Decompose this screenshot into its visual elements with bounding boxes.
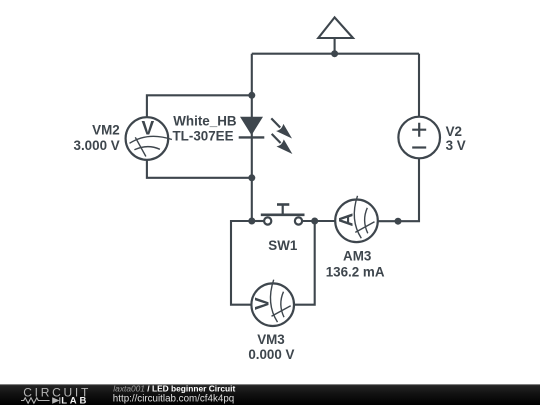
svg-text:3 V: 3 V <box>446 138 466 153</box>
svg-text:http://circuitlab.com/cf4k4pq: http://circuitlab.com/cf4k4pq <box>113 393 234 404</box>
svg-text:laxta001 / LED beginner Circui: laxta001 / LED beginner Circuit <box>113 384 235 394</box>
svg-text:V: V <box>253 297 274 310</box>
svg-text:V2: V2 <box>446 124 462 139</box>
svg-text:3.000 V: 3.000 V <box>74 138 120 153</box>
svg-text:A: A <box>336 213 357 227</box>
svg-text:136.2 mA: 136.2 mA <box>326 264 385 279</box>
svg-text:AM3: AM3 <box>343 249 371 264</box>
svg-text:V: V <box>142 118 155 139</box>
svg-text:VM3: VM3 <box>257 332 285 347</box>
svg-text:0.000 V: 0.000 V <box>248 347 294 362</box>
svg-text:White_HB: White_HB <box>173 114 237 129</box>
svg-text:LAB: LAB <box>61 395 89 405</box>
svg-text:VM2: VM2 <box>92 123 120 138</box>
svg-text:SW1: SW1 <box>268 238 298 253</box>
svg-text:TL-307EE: TL-307EE <box>173 129 234 144</box>
